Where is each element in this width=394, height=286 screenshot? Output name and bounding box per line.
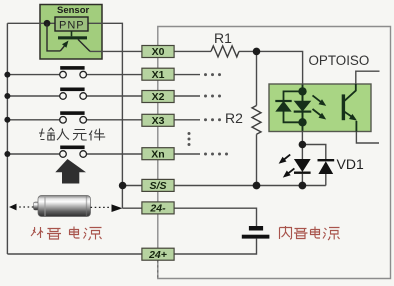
源: [84, 228, 102, 241]
node bus-X2 junction: [4, 93, 10, 99]
svg-text:X3: X3: [152, 115, 165, 127]
switch S2 (X2 input contact): [60, 88, 87, 100]
元: [73, 130, 87, 141]
电: [70, 227, 80, 239]
diode VD1: [318, 159, 335, 174]
wire optocoupler cathode to LED node: [301, 122, 303, 144]
terminal X2: [142, 91, 174, 104]
node bus-X3 junction: [4, 117, 10, 123]
resistor R1: [211, 46, 239, 57]
wire phototransistor collector stub: [356, 71, 380, 84]
transistor Q1 (PNP sensor output): [47, 23, 90, 51]
svg-text:S/S: S/S: [150, 180, 167, 192]
svg-text:R1: R1: [214, 30, 232, 46]
opto light arrow 1: [313, 95, 322, 102]
terminal S/S: [142, 179, 174, 192]
internal battery: [242, 226, 270, 239]
wire phototransistor emitter stub: [356, 132, 379, 144]
enclosure dashed segment below 24+ terminal: [157, 260, 159, 278]
wire switch row X3: [7, 119, 142, 121]
opto diode D-left (up): [275, 101, 291, 112]
输: [39, 128, 55, 140]
wire R2 bottom lead: [256, 134, 258, 185]
PNP block of sensor: [55, 17, 88, 31]
node LED top junction: [299, 141, 307, 149]
arrowhead right of external battery: [112, 204, 123, 212]
wire sensor 0V to S/S and 24- vertical: [88, 23, 122, 208]
wire X0 net sensor output to R1: [90, 50, 211, 52]
外: [31, 227, 43, 238]
svg-text:Sensor: Sensor: [57, 5, 90, 16]
wire X1 dots solid part: [174, 74, 200, 76]
terminal X0: [142, 46, 174, 59]
源: [323, 228, 340, 241]
wire 24- terminal to internal battery: [174, 208, 256, 226]
电: [311, 227, 321, 239]
wire left 24V bus: [6, 23, 8, 254]
opto phototransistor: [342, 94, 345, 120]
wire switch row X1: [7, 74, 142, 76]
wire VD1 anode to 0V line: [325, 173, 327, 186]
svg-text:24-: 24-: [149, 203, 166, 215]
node sensor supply junction: [44, 20, 51, 27]
ellipsis after X1: [204, 73, 221, 76]
wire top supply to sensor PNP: [7, 22, 55, 24]
svg-text:X0: X0: [152, 46, 165, 58]
switch S1 (X1 input contact): [60, 66, 87, 78]
wire 24- stub: [122, 207, 141, 209]
indicator LED (input lamp): [279, 155, 311, 178]
terminal 24+: [142, 248, 174, 261]
label 外置电源: [31, 227, 102, 241]
external battery cell: [34, 196, 91, 217]
label 内置电源: [280, 226, 340, 240]
svg-text:Xn: Xn: [151, 148, 164, 160]
wire LED anode node to VD1: [302, 145, 325, 160]
wire X0 net R1 to optocoupler: [239, 51, 303, 91]
wire X3 dots solid part: [174, 119, 200, 121]
node S/S junction: [119, 182, 127, 190]
svg-text:X1: X1: [152, 69, 165, 81]
svg-text:24+: 24+: [148, 249, 167, 261]
PLC enclosure box: [158, 27, 391, 279]
svg-text:R2: R2: [225, 110, 243, 126]
LED emission arrow 1: [284, 155, 290, 160]
wire X2 dots solid part: [174, 95, 200, 97]
opto diode D-right (down): [294, 101, 312, 112]
入: [57, 129, 69, 141]
optocoupler box U1: [269, 84, 371, 132]
wire switch row X2: [7, 95, 142, 97]
optocoupler input LED pair: [275, 84, 357, 132]
wire LED vertical: [301, 145, 303, 186]
node LED-S/S line junction: [299, 182, 307, 190]
wire Xn dots solid part: [174, 153, 200, 155]
node R2-S/S line junction: [253, 182, 261, 190]
node opto anode: [298, 87, 306, 95]
ellipsis after X2: [204, 95, 221, 98]
wire bottom bus to 24+: [7, 253, 142, 255]
wire S/S 0V node line: [174, 185, 326, 187]
opto light arrow 2: [313, 109, 322, 116]
svg-text:OPTOISO: OPTOISO: [309, 53, 370, 68]
terminal X3: [142, 114, 174, 127]
ellipsis after X3: [204, 118, 221, 121]
terminal 24-: [142, 202, 174, 215]
wire switch row Xn: [7, 153, 142, 155]
wire internal battery to 24+ terminal: [174, 239, 256, 254]
terminal Xn: [142, 148, 174, 161]
sensor box: [40, 5, 102, 60]
dotted external battery connection: [15, 206, 112, 208]
置: [294, 229, 308, 239]
label 输入元件: [39, 128, 105, 141]
resistor R2: [252, 106, 261, 135]
switch S3 (X3 input contact): [60, 111, 87, 123]
node bus-X1 junction: [4, 72, 10, 78]
node opto cathode: [298, 118, 306, 126]
arrowhead left of external battery: [9, 204, 17, 211]
switch Sn (Xn input contact): [60, 146, 87, 158]
opto input vertical dark segment: [302, 85, 304, 131]
node bus-Xn junction: [4, 151, 10, 157]
LED emission arrow 2: [288, 168, 294, 173]
terminal X1: [142, 68, 174, 81]
svg-text:VD1: VD1: [337, 156, 364, 172]
node R1-R2 junction: [253, 48, 261, 56]
件: [89, 129, 105, 141]
wire S/S stub: [123, 185, 142, 187]
wire R2 top lead: [256, 51, 258, 105]
vertical ellipsis between X3 and Xn: [188, 132, 191, 146]
内: [280, 226, 292, 239]
置: [47, 229, 61, 240]
svg-text:PNP: PNP: [59, 20, 85, 32]
big up arrow pointing to input contacts: [55, 159, 86, 184]
svg-text:X2: X2: [152, 91, 165, 103]
ellipsis after Xn: [204, 153, 228, 156]
